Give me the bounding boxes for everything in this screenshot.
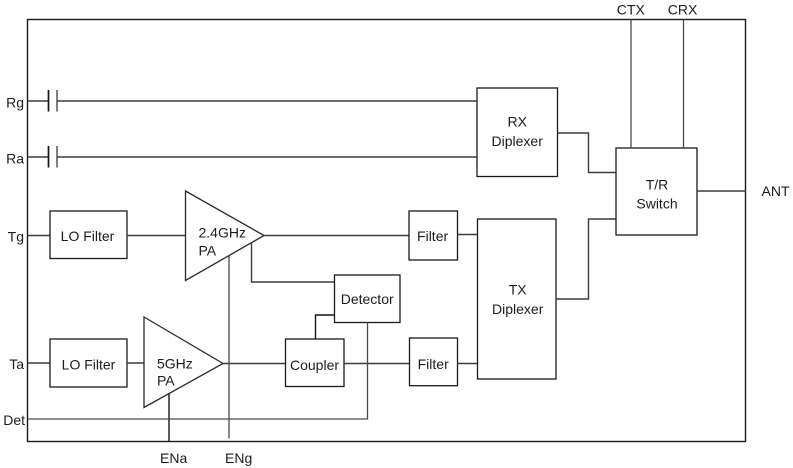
svg-text:2.4GHz: 2.4GHz: [199, 225, 246, 241]
wire ENa control line: [168, 394, 170, 442]
block TX Diplexer: [478, 219, 557, 379]
wire 5GHz PA to Coupler: [223, 363, 285, 365]
svg-text:Det: Det: [3, 412, 25, 428]
svg-text:Diplexer: Diplexer: [492, 133, 544, 149]
wire Ta to LO Filter: [28, 362, 51, 364]
svg-text:PA: PA: [157, 373, 175, 389]
svg-text:Switch: Switch: [636, 196, 677, 212]
block Detector: [335, 275, 401, 323]
wire CTX control line: [630, 20, 632, 149]
svg-text:RX: RX: [507, 114, 527, 130]
svg-text:5GHz: 5GHz: [157, 355, 193, 371]
svg-text:Detector: Detector: [341, 291, 394, 307]
amplifier 2.4GHz PA: [186, 191, 265, 281]
svg-text:Rg: Rg: [6, 94, 24, 110]
svg-text:Diplexer: Diplexer: [492, 301, 544, 317]
wire Detector to Det port: [28, 323, 368, 420]
svg-text:ENg: ENg: [225, 450, 252, 466]
svg-text:ENa: ENa: [160, 450, 187, 466]
block LO Filter (2.4GHz path): [50, 211, 127, 259]
block T/R Switch: [616, 148, 697, 235]
wire 2.4GHz PA to Filter: [264, 235, 409, 237]
wire Rg line to RX Diplexer: [58, 100, 478, 102]
wire Ra stub from border to capacitor: [28, 156, 49, 158]
block LO Filter (5GHz path): [50, 339, 127, 387]
wire Tg to LO Filter: [28, 235, 51, 237]
svg-text:TX: TX: [509, 282, 528, 298]
svg-text:Filter: Filter: [418, 356, 449, 372]
wire Coupler to Filter (5GHz): [344, 363, 410, 365]
svg-text:LO Filter: LO Filter: [62, 357, 116, 373]
wire TX Diplexer to T/R Switch: [556, 219, 616, 299]
capacitor on Ra line: [48, 146, 50, 168]
svg-text:Coupler: Coupler: [290, 357, 339, 373]
wire Ra line to RX Diplexer: [58, 156, 478, 158]
svg-text:CTX: CTX: [617, 1, 646, 17]
block Filter (5GHz path): [410, 338, 458, 386]
wire ENg control line: [228, 256, 230, 439]
block Coupler: [286, 339, 345, 387]
svg-text:T/R: T/R: [646, 177, 669, 193]
wire LO Filter to 5GHz PA: [127, 362, 144, 364]
svg-text:Filter: Filter: [417, 228, 448, 244]
wire Filter to TX Diplexer (5GHz): [457, 363, 478, 365]
svg-text:ANT: ANT: [762, 183, 790, 199]
wire LO Filter to 2.4GHz PA: [127, 235, 186, 237]
svg-text:PA: PA: [199, 243, 217, 259]
block Filter (2.4GHz path): [409, 211, 458, 260]
svg-text:Tg: Tg: [8, 228, 24, 244]
wire CRX control line: [683, 20, 685, 149]
wire RX Diplexer to T/R Switch: [558, 133, 617, 173]
block RX Diplexer: [477, 88, 558, 177]
svg-text:Ra: Ra: [6, 150, 24, 166]
amplifier 5GHz PA: [144, 317, 223, 408]
svg-text:LO Filter: LO Filter: [61, 228, 115, 244]
wire Filter to TX Diplexer (2.4GHz): [458, 234, 478, 236]
wire T/R Switch to ANT port: [697, 190, 746, 192]
svg-text:Ta: Ta: [9, 356, 24, 372]
capacitor on Rg line: [48, 90, 50, 112]
svg-text:CRX: CRX: [668, 1, 698, 17]
wire Coupler to Detector: [316, 315, 335, 339]
wire 2.4GHz PA tap to Detector: [252, 243, 335, 283]
wire Rg stub from border to capacitor: [28, 100, 49, 102]
